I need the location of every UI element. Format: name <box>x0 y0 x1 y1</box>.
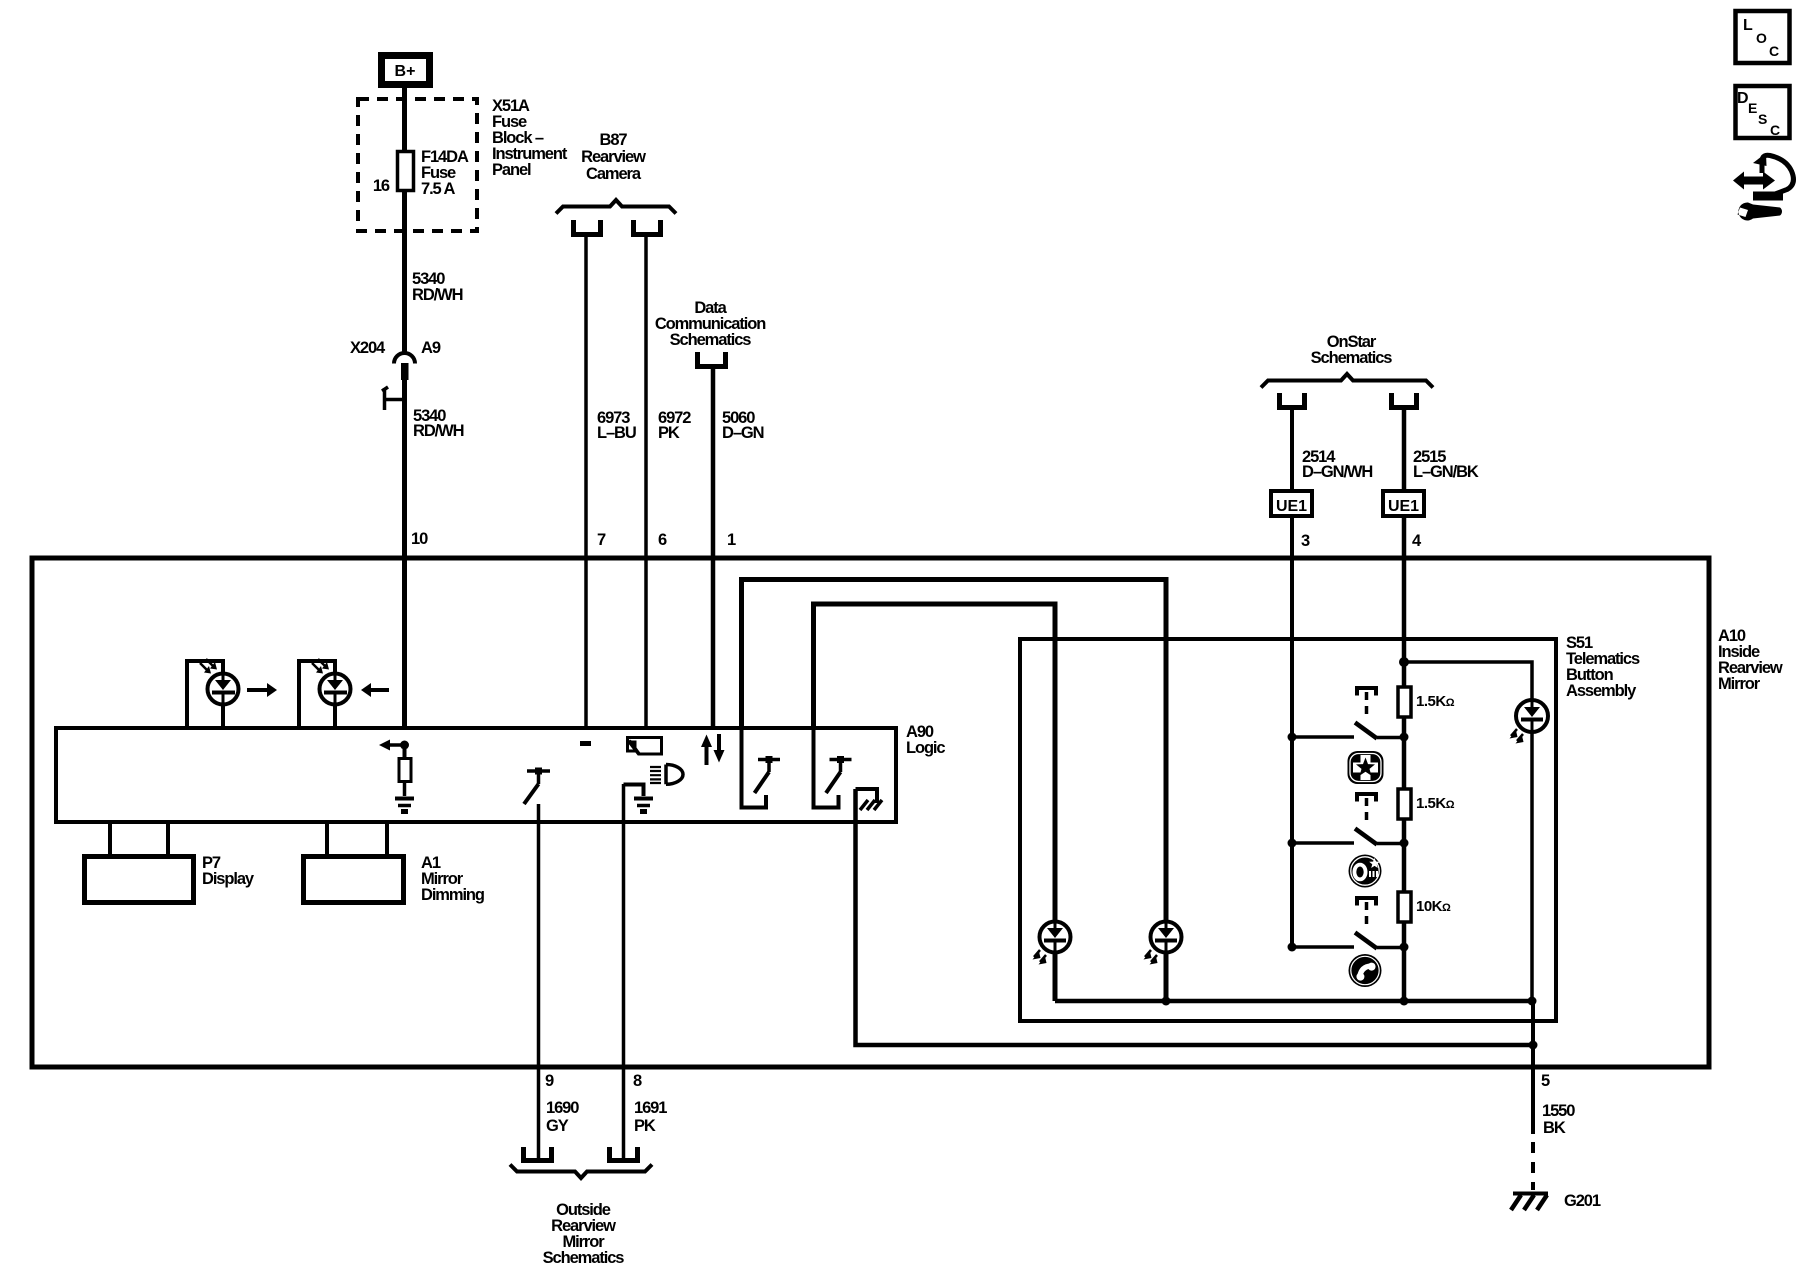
arrow tap on power wire inside A90 <box>379 740 404 751</box>
svg-text:4: 4 <box>1412 532 1422 550</box>
switch 1 in A90 <box>755 756 781 793</box>
brace under outside mirror connectors <box>510 1165 652 1179</box>
svg-text:GY: GY <box>546 1117 569 1135</box>
fuse F14DA <box>398 152 414 191</box>
wire B+ feed to X204 <box>402 86 407 353</box>
svg-text:B+: B+ <box>395 63 416 80</box>
svg-text:Mirror: Mirror <box>1718 675 1761 693</box>
junction dot on power wire <box>400 741 409 750</box>
svg-text:Rearview: Rearview <box>581 148 646 166</box>
junction dots row 2 <box>1288 839 1409 848</box>
svg-text:G201: G201 <box>1564 1192 1601 1210</box>
stub wires to A1 mirror dimming <box>327 822 387 854</box>
LED indicator 1 <box>1033 922 1071 965</box>
label A10 Inside Rearview Mirror <box>1718 627 1783 693</box>
A90 logic box <box>56 728 896 822</box>
wire resistor to ground <box>403 782 407 797</box>
svg-text:1690: 1690 <box>546 1099 579 1117</box>
wire label 2515 L-GN/BK <box>1413 448 1479 481</box>
svg-text:Schematics: Schematics <box>1311 349 1393 367</box>
A10 inside rearview mirror box <box>32 558 1709 1067</box>
svg-text:PK: PK <box>634 1117 656 1135</box>
label P7 Display <box>202 854 255 888</box>
svg-text:L–GN/BK: L–GN/BK <box>1413 463 1479 481</box>
emergency button icon <box>1348 751 1384 784</box>
connector at B87 pin (wire 6973) <box>574 220 601 235</box>
P7 display box <box>85 857 194 903</box>
ground symbol for wire 1691 (pin 8) <box>624 785 654 815</box>
switch enclosure 2 in A90 <box>814 728 839 808</box>
wire tap to backlight LED <box>1404 662 1532 1001</box>
svg-text:A9: A9 <box>421 339 441 357</box>
photocell sensor 2 enclosure <box>299 661 335 728</box>
svg-text:Camera: Camera <box>586 165 642 183</box>
wire from A90 switch 2 to S51 LED 1 <box>814 604 1056 1001</box>
svg-text:UE1: UE1 <box>1276 498 1307 515</box>
ground G201 symbol <box>1511 1194 1548 1211</box>
connector to outside mirror (wire 1691) <box>610 1147 638 1161</box>
chassis ground hook in A90 <box>856 789 883 810</box>
connector at OnStar (wire 2515) <box>1392 393 1417 408</box>
photocell sensor 1 <box>200 659 239 705</box>
switch to outside mirror (pin 9) <box>524 768 550 805</box>
stub wires to P7 display <box>110 822 168 854</box>
junction dot wire 2515 top tap <box>1399 657 1409 667</box>
resistor 1.5K upper <box>1398 687 1411 717</box>
wire from junction to internal resistor <box>403 745 407 759</box>
brace over B87 connectors <box>556 200 676 214</box>
svg-text:C: C <box>1770 122 1780 138</box>
label X51A Fuse Block - Instrument Panel <box>492 97 568 179</box>
svg-text:BK: BK <box>1543 1119 1566 1137</box>
svg-text:RD/WH: RD/WH <box>412 286 463 304</box>
wire label 5340 RD/WH lower <box>413 407 464 440</box>
resistor 10K <box>1398 892 1411 922</box>
minus sign <box>580 741 591 746</box>
B+ power symbol <box>382 56 430 85</box>
wire from A90 switch 1 to S51 LED 2 <box>742 580 1167 1002</box>
wire 1690 to outside mirror (pin 9) <box>537 804 541 1158</box>
svg-text:C: C <box>1769 43 1779 59</box>
svg-text:1550: 1550 <box>1542 1102 1575 1120</box>
svg-text:D–GN: D–GN <box>722 424 764 442</box>
wire label 1690 GY <box>546 1099 579 1135</box>
schematic navigation icon (double arrow, curved arrow, wrench) <box>1733 153 1793 220</box>
svg-text:Logic: Logic <box>906 739 945 757</box>
svg-text:5: 5 <box>1541 1072 1550 1090</box>
rearview camera icon <box>628 738 662 755</box>
svg-text:10KΩ: 10KΩ <box>1416 898 1451 915</box>
switch 2 in A90 <box>826 756 852 793</box>
OnStar button icon <box>1349 855 1382 888</box>
switch enclosure 1 in A90 <box>742 728 767 808</box>
wire label 2514 D-GN/WH <box>1302 448 1372 481</box>
svg-text:B87: B87 <box>600 131 628 149</box>
LED indicator 3 (backlight) <box>1510 700 1549 744</box>
fuse block X51A dashed outline <box>358 99 477 231</box>
svg-text:10: 10 <box>411 530 428 548</box>
svg-text:16: 16 <box>373 177 390 195</box>
svg-text:3: 3 <box>1301 532 1310 550</box>
splice UE1 on wire 2514 <box>1271 491 1312 516</box>
DESC navigation box <box>1736 86 1790 138</box>
svg-text:9: 9 <box>545 1072 554 1090</box>
svg-text:Assembly: Assembly <box>1566 682 1637 700</box>
wire 1691 to outside mirror (pin 8) <box>622 784 626 1158</box>
label A90 Logic <box>906 723 945 757</box>
wire 2515 L-GN/BK down through S51 resistor chain <box>1402 407 1407 1001</box>
wire 2514 D-GN/WH down to S51 left rail <box>1290 407 1294 947</box>
svg-text:1: 1 <box>727 531 736 549</box>
wire row 3 <box>1292 945 1404 949</box>
splice UE1 on wire 2515 <box>1383 491 1424 516</box>
LOC navigation box <box>1736 11 1790 63</box>
label F14DA Fuse 7.5 A <box>421 148 469 198</box>
connector at B87 pin (wire 6972) <box>634 220 661 235</box>
wire label 1550 BK <box>1542 1102 1575 1137</box>
wire label 5340 RD/WH upper <box>412 270 463 304</box>
svg-text:O: O <box>1756 30 1767 46</box>
junction dot backlight on bottom rail <box>1528 997 1537 1006</box>
svg-text:RD/WH: RD/WH <box>413 422 464 440</box>
wire label 5060 D-GN <box>722 409 764 442</box>
ground symbol under internal resistor <box>395 799 414 815</box>
pushbutton switch 2 (OnStar) <box>1355 794 1377 845</box>
phone button icon <box>1349 954 1382 987</box>
svg-text:X204: X204 <box>350 339 386 357</box>
bidirectional data arrows (pin 1) <box>701 734 725 765</box>
S51 telematics button assembly box <box>1020 639 1556 1021</box>
dashed wire to G201 <box>1531 1142 1535 1190</box>
svg-text:7.5 A: 7.5 A <box>421 180 456 198</box>
internal resistor on power wire <box>399 759 411 782</box>
wire 6972 PK <box>644 234 648 730</box>
wire label 6972 PK <box>658 409 691 442</box>
wire 1550 BK (pin 5) <box>1531 1001 1535 1134</box>
photocell sensor 1 enclosure <box>187 661 223 728</box>
headlamp icon <box>650 765 683 785</box>
svg-text:D: D <box>1737 90 1749 107</box>
photocell sensor 2 <box>312 659 351 705</box>
connector at OnStar (wire 2514) <box>1280 393 1305 408</box>
wire 5060 D-GN <box>711 366 716 730</box>
wire label 6973 L-BU <box>597 409 636 442</box>
wire 6973 L-BU <box>584 234 588 730</box>
svg-text:D–GN/WH: D–GN/WH <box>1302 463 1372 481</box>
ground return wire from A90 to wire 1550 <box>856 789 1534 1045</box>
svg-text:PK: PK <box>658 424 680 442</box>
LED indicator 2 <box>1144 922 1182 965</box>
connector to data communication schematics <box>698 352 726 367</box>
svg-text:1691: 1691 <box>634 1099 667 1117</box>
junction dots row 1 <box>1288 733 1409 742</box>
wire row 2 <box>1292 841 1404 845</box>
svg-text:Schematics: Schematics <box>543 1249 625 1267</box>
junction dot LED2 on bottom rail <box>1162 997 1171 1006</box>
label S51 Telematics Button Assembly <box>1566 634 1640 700</box>
label Data Communication Schematics <box>655 299 766 349</box>
label OnStar Schematics <box>1311 333 1393 367</box>
resistor 1.5K lower <box>1398 789 1411 819</box>
junction dot ground return <box>1529 1041 1538 1050</box>
label Outside Rearview Mirror Schematics <box>543 1201 625 1267</box>
pushbutton switch 3 (phone) <box>1355 898 1377 949</box>
svg-text:6: 6 <box>658 531 667 549</box>
junction dots row 3 <box>1288 943 1409 952</box>
A1 mirror dimming box <box>304 857 404 903</box>
junction dot resistor chain on bottom rail <box>1400 997 1409 1006</box>
wire row 1 <box>1292 735 1404 739</box>
svg-text:Dimming: Dimming <box>421 886 484 904</box>
svg-text:UE1: UE1 <box>1388 498 1419 515</box>
pushbutton switch 1 (emergency) <box>1355 688 1377 739</box>
svg-text:E: E <box>1748 100 1757 116</box>
label A1 Mirror Dimming <box>421 854 484 904</box>
svg-text:S: S <box>1758 111 1767 127</box>
svg-text:L–BU: L–BU <box>597 424 636 442</box>
svg-text:1.5KΩ: 1.5KΩ <box>1416 693 1455 710</box>
wire label 1691 PK <box>634 1099 667 1135</box>
connector X204 symbol <box>382 353 415 410</box>
svg-text:8: 8 <box>633 1072 642 1090</box>
wire 5340 below X204 <box>402 380 407 730</box>
arrow out of photocell 1 <box>247 683 277 697</box>
svg-text:7: 7 <box>597 531 606 549</box>
arrow into photocell 2 <box>361 683 389 697</box>
svg-text:Schematics: Schematics <box>670 331 752 349</box>
svg-text:Display: Display <box>202 870 255 888</box>
label B87 Rearview Camera <box>581 131 646 183</box>
svg-text:1.5KΩ: 1.5KΩ <box>1416 795 1455 812</box>
svg-text:Panel: Panel <box>492 161 531 179</box>
brace over OnStar connectors <box>1261 374 1433 388</box>
svg-text:L: L <box>1743 17 1753 34</box>
connector to outside mirror (wire 1690) <box>524 1147 552 1161</box>
bottom rail of S51 <box>1055 999 1532 1004</box>
